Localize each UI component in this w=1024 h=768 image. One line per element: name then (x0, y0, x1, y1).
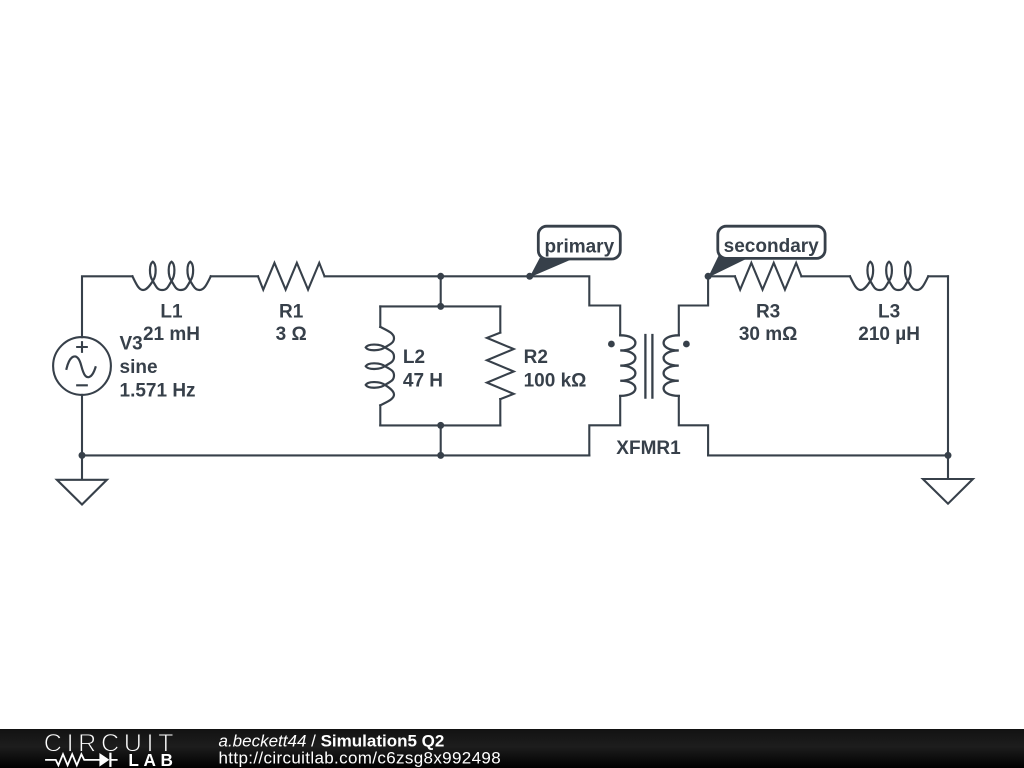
svg-text:primary: primary (544, 236, 614, 257)
svg-text:1.571 Hz: 1.571 Hz (120, 380, 196, 401)
wire primary tap to transformer primary top (530, 276, 621, 335)
wire box bottom (L2 to R2) (380, 424, 500, 426)
svg-text:100 kΩ: 100 kΩ (524, 371, 587, 392)
wire parallel box bottom to bottom rail (440, 425, 442, 455)
wire secondary tap to transformer secondary top (679, 276, 708, 335)
inductor L1 (132, 262, 210, 290)
logo diode triangle (99, 753, 109, 767)
svg-text:sine: sine (120, 357, 158, 378)
wire L1 to R1 (211, 275, 258, 277)
resistor R2 (487, 333, 514, 400)
wire L3 to right vertical (928, 275, 948, 277)
wire transformer secondary bottom to rail (679, 396, 708, 456)
callout primary box (538, 226, 620, 259)
wire R3 to L3 (801, 275, 850, 277)
wire stubs L2 (379, 306, 381, 425)
svg-text:21 mH: 21 mH (143, 324, 200, 345)
inductor L2 (366, 327, 394, 405)
junction secondary tap (705, 273, 712, 280)
svg-text:L1: L1 (160, 302, 183, 323)
wire transformer primary bottom to rail (589, 396, 620, 456)
svg-text:47 H: 47 H (403, 371, 443, 392)
callout primary tail (531, 259, 573, 277)
wire bottom rail right (708, 454, 948, 456)
junction primary tap (526, 273, 533, 280)
transformer XFMR1 core (645, 335, 652, 398)
secondary phase dot (683, 341, 690, 348)
wire stubs R2 (499, 306, 501, 425)
wire right vertical (947, 276, 949, 455)
svg-text:R2: R2 (524, 347, 548, 368)
svg-text:XFMR1: XFMR1 (616, 438, 681, 459)
callout secondary tail (709, 256, 751, 277)
resistor R3 (735, 263, 802, 290)
junction node A top (437, 273, 444, 280)
ground left (57, 455, 107, 504)
svg-text:http://circuitlab.com/c6zsg8x9: http://circuitlab.com/c6zsg8x992498 (219, 749, 502, 768)
wire bottom rail left (82, 454, 589, 456)
junction at right ground rail (945, 452, 952, 459)
inductor L3 (850, 262, 928, 290)
junction box top (437, 303, 444, 310)
ground right (923, 455, 973, 503)
wire R1 to primary tap node (325, 275, 530, 277)
wire box top (L2 to R2) (380, 305, 500, 307)
wire V3 bottom to ground rail (81, 395, 83, 456)
junction node A bottom (437, 452, 444, 459)
svg-text:L2: L2 (403, 347, 425, 368)
resistor R1 (258, 263, 325, 290)
svg-text:210 µH: 210 µH (858, 324, 920, 345)
transformer XFMR1 primary winding (620, 335, 635, 396)
callout secondary box (718, 226, 825, 258)
transformer XFMR1 secondary winding (664, 335, 679, 396)
svg-text:3 Ω: 3 Ω (276, 324, 307, 345)
svg-text:secondary: secondary (724, 236, 819, 257)
wire V3 top to L1 (82, 276, 132, 337)
svg-text:V3: V3 (120, 334, 143, 355)
primary phase dot (608, 341, 615, 348)
svg-text:R3: R3 (756, 302, 780, 323)
svg-text:30 mΩ: 30 mΩ (739, 324, 798, 345)
wire secondary tap to R3 (708, 275, 735, 277)
logo resistor zigzag and diode wire (45, 753, 118, 767)
voltage source V3 (53, 337, 111, 395)
svg-text:L3: L3 (878, 302, 900, 323)
svg-text:LAB: LAB (128, 750, 173, 768)
svg-text:R1: R1 (279, 302, 304, 323)
junction box bottom (437, 422, 444, 429)
wire node A to parallel box top (440, 276, 442, 306)
junction at left ground rail (79, 452, 86, 459)
